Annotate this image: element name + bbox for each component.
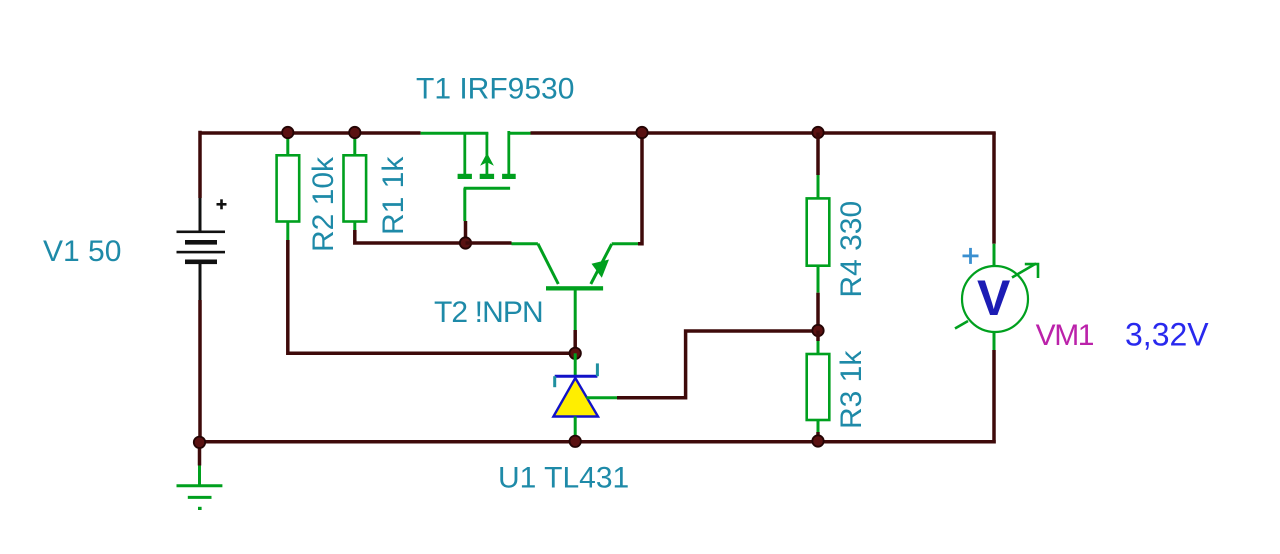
svg-text:R1 1k: R1 1k	[377, 156, 410, 235]
wire battery top vertical	[198, 131, 202, 198]
node B junction dot	[570, 348, 581, 359]
svg-text:T1 IRF9530: T1 IRF9530	[416, 73, 574, 106]
svg-text:V: V	[977, 270, 1011, 326]
resistor R1	[344, 134, 367, 230]
wire U1 ref to node C	[617, 331, 818, 398]
transistor T1 (IRF9530 PMOS)	[421, 131, 531, 221]
svg-text:3,32V: 3,32V	[1125, 317, 1209, 353]
voltmeter VM1	[955, 244, 1038, 350]
node battery bottom junction dot	[194, 437, 205, 448]
svg-text:R2 10k: R2 10k	[307, 156, 340, 252]
node C junction dot	[812, 325, 823, 336]
wire node A to T2 collector	[466, 241, 512, 245]
node top T2 junction dot	[636, 127, 647, 138]
battery V1	[177, 198, 227, 300]
svg-text:U1 TL431: U1 TL431	[498, 462, 629, 495]
transistor T2 (!NPN)	[512, 244, 639, 330]
wire T2 base to node B	[573, 330, 577, 353]
svg-text:R3 1k: R3 1k	[835, 350, 868, 429]
wire voltmeter bottom	[992, 350, 996, 444]
wire T2 emitter to top rail	[638, 133, 642, 244]
wire top rail right (T1 drain to voltmeter corner)	[531, 131, 996, 135]
svg-text:V1 50: V1 50	[43, 235, 121, 268]
node A junction dot	[460, 237, 471, 248]
svg-text:VM1: VM1	[1036, 319, 1094, 352]
wire bottom rail	[200, 440, 996, 444]
resistor R2	[277, 134, 300, 240]
node top R2 junction dot	[282, 127, 293, 138]
wire battery bottom vertical	[198, 300, 202, 442]
svg-text:T2 !NPN: T2 !NPN	[434, 296, 543, 329]
node top R1 junction dot	[349, 127, 360, 138]
op-amp U1 TL431	[553, 353, 617, 441]
svg-text:R4 330: R4 330	[835, 201, 868, 298]
resistor R3	[807, 331, 830, 442]
node top R4 junction dot	[812, 127, 823, 138]
resistor R4	[807, 133, 830, 331]
wire voltmeter top	[992, 133, 996, 244]
wire R2 bottom to node B	[288, 240, 575, 353]
wire R1 bottom to node A	[355, 230, 466, 243]
node U1 anode junction dot	[570, 436, 581, 447]
wire top rail left (battery to T1)	[200, 131, 421, 135]
ground	[177, 442, 223, 510]
wire T1 gate to node A	[464, 221, 468, 243]
node R3 bottom junction dot	[812, 435, 823, 446]
